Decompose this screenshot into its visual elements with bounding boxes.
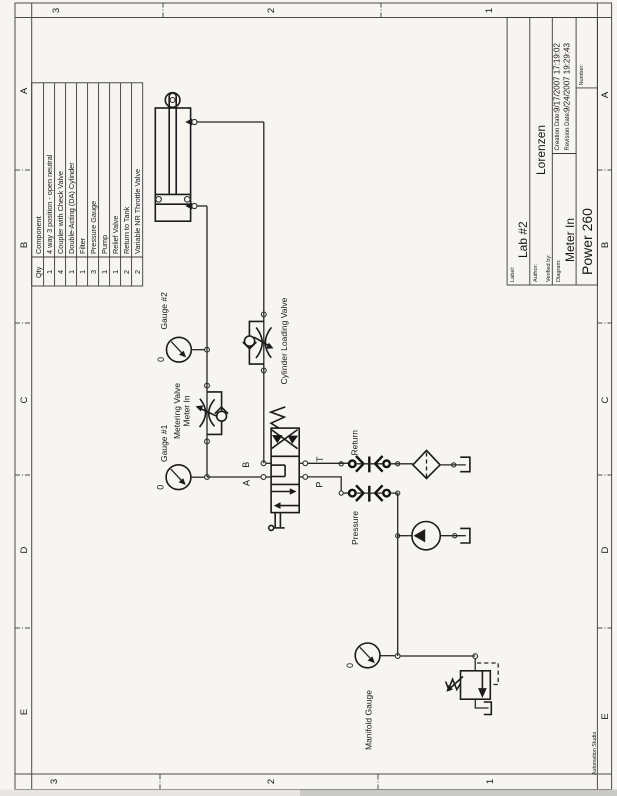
valve left box parallel arrows [272,488,299,509]
wire T stub [299,462,303,464]
svg-text:Number:: Number: [579,64,585,86]
loading adjust arrow [254,337,269,346]
wire T down [308,462,349,464]
node metering left [205,439,210,444]
wire P stub [299,476,303,478]
wire B port stub [266,462,271,464]
metering adjust arrow [200,408,217,416]
zone letters top band [19,87,30,715]
svg-text:B: B [600,242,611,248]
svg-text:Meter In: Meter In [182,395,192,426]
svg-text:0: 0 [156,485,166,490]
loading throttle arcs [256,328,262,359]
zone numbers left band [49,779,496,784]
svg-text:Pressure Gauge: Pressure Gauge [89,201,98,254]
svg-text:2: 2 [266,779,277,784]
svg-text:4 way 3 position - open neutra: 4 way 3 position - open neutral [45,154,54,254]
zone numbers right band [51,8,495,13]
node return top [339,462,343,466]
valve right box crossed arrows [271,430,298,449]
zone ticks bottom band [597,170,611,628]
wire manifold down to relief [400,655,475,657]
node manifold junction [395,654,400,659]
svg-text:2: 2 [133,270,142,274]
svg-text:B: B [241,462,251,468]
valve lever [274,513,285,528]
svg-text:Variable NR Throttle Valve: Variable NR Throttle Valve [133,169,142,254]
pressure gauge Gauge #2 [167,337,206,362]
svg-text:Double-Acting (DA) Cylinder: Double-Acting (DA) Cylinder [67,162,76,254]
border inner frame [31,3,33,790]
coupler pressure (with check valves) [349,485,390,501]
wire relief to tank [475,699,488,708]
svg-text:Coupler with Check Valve: Coupler with Check Valve [56,171,65,254]
svg-text:P: P [314,482,324,488]
node pump tee [396,534,400,538]
tank relief [484,702,492,715]
node metering right [205,383,210,388]
svg-text:D: D [19,546,30,553]
node return bottom [396,462,400,466]
svg-text:E: E [600,713,611,719]
pressure gauge Gauge #1 [166,465,205,490]
svg-text:1: 1 [484,8,495,13]
svg-text:A: A [19,87,30,94]
relief valve [446,663,499,699]
wire pressure rail to manifold [390,493,398,656]
node pressure bottom [396,491,400,495]
svg-text:A: A [242,480,252,486]
svg-text:Verified by:: Verified by: [546,254,552,282]
relief spring [446,679,461,689]
svg-text:9/17/2007 17:19:02: 9/17/2007 17:19:02 [553,42,562,112]
wire pump stub [398,535,412,537]
wire filter to tank [440,464,466,466]
svg-text:Metering Valve: Metering Valve [172,383,182,439]
svg-text:Creation Date:: Creation Date: [555,111,561,150]
wire return to filter [390,463,413,465]
svg-text:Lorenzen: Lorenzen [534,125,548,175]
svg-text:Return to Tank: Return to Tank [122,206,131,254]
cylinder DA body [155,93,190,221]
metering valve bypass loop [207,392,222,411]
node loading left [261,368,266,373]
node T port [303,461,308,466]
svg-text:1: 1 [78,270,87,274]
svg-text:C: C [600,396,611,403]
svg-text:Filter: Filter [78,237,87,254]
svg-text:Gauge #1: Gauge #1 [159,424,169,462]
svg-text:2: 2 [266,8,277,13]
cylinder rod-end port [185,119,192,126]
loading valve bypass loop [249,321,263,336]
filter [413,450,440,478]
svg-text:1: 1 [485,779,496,784]
valve body boxes [271,428,299,512]
scanner edge strip bottom [0,790,617,796]
wire P down and left [308,477,342,491]
svg-text:2: 2 [122,270,131,274]
svg-text:Gauge #2: Gauge #2 [159,292,169,330]
node pressure corner [339,491,343,495]
zone letters bottom band [600,91,611,720]
node P port [303,475,308,480]
node B port [261,461,266,466]
tank return (under filter) [460,457,470,472]
svg-text:3: 3 [89,270,98,274]
wire A drop to valve [207,476,261,478]
svg-text:Manifold Gauge: Manifold Gauge [364,690,374,750]
svg-text:Automation Studio: Automation Studio [592,732,598,775]
valve center box open-neutral links [271,465,285,476]
pressure gauge Manifold Gauge [355,643,380,668]
node gauge2 tee [205,347,210,352]
svg-text:1: 1 [100,270,109,274]
relief pilot dashed [477,663,498,685]
svg-text:A: A [600,91,611,98]
coupler return (with check valves) [349,456,390,472]
svg-text:T: T [315,456,325,462]
zone ticks right band [163,3,381,18]
node A port [261,475,266,480]
svg-text:Power 260: Power 260 [579,208,595,275]
svg-text:1: 1 [111,270,120,274]
wire rail A (cap end to port A) [206,206,208,477]
relief adjust arrow [449,677,463,690]
svg-text:Author:: Author: [533,264,539,282]
svg-text:Diagram:: Diagram: [556,259,562,282]
wire manifold stub [380,655,395,657]
svg-text:Return: Return [350,430,360,456]
valve spring [271,407,286,428]
cylinder cap-end port [185,203,192,210]
svg-text:Pump: Pump [100,235,109,254]
svg-text:Meter In: Meter In [563,218,577,262]
piston [155,203,190,205]
svg-text:Relief Valve: Relief Valve [111,216,120,254]
svg-text:Lab #2: Lab #2 [516,221,530,258]
svg-text:C: C [19,396,30,403]
rod clevis eye [165,93,180,108]
svg-text:Revision Date:: Revision Date: [565,111,571,150]
wire relief inlet [474,659,476,671]
svg-text:0: 0 [156,357,166,362]
svg-text:1: 1 [45,270,54,274]
wire pressure drop [343,492,349,494]
svg-text:E: E [19,709,30,715]
wire rod-end stub [197,121,264,123]
rod [168,97,170,195]
svg-text:Pressure: Pressure [350,511,360,545]
node gauge1 tee [205,475,210,480]
node loading right [261,312,266,317]
component table grid [32,83,143,286]
component table text [34,154,142,278]
zone ticks left band [160,774,378,790]
svg-text:0: 0 [345,663,355,668]
svg-text:9/24/2007 19:29:43: 9/24/2007 19:29:43 [563,42,572,112]
wire A port stub [266,476,271,478]
title block grid [507,18,597,286]
node relief inlet [473,654,478,659]
svg-text:4: 4 [56,270,65,274]
zone ticks top band [15,170,32,628]
loading check valve [245,336,255,346]
wire rail B (rod end to port B) [263,122,265,463]
svg-text:Cylinder Loading Valve: Cylinder Loading Valve [279,297,289,384]
wire cap-end stub [197,205,207,207]
svg-text:Component: Component [34,216,43,254]
metering check valve [217,411,227,421]
svg-text:D: D [600,546,611,553]
svg-text:1: 1 [67,270,76,274]
svg-text:B: B [19,242,30,248]
svg-text:3: 3 [49,779,60,784]
svg-text:Label:: Label: [510,266,516,282]
svg-text:Qty: Qty [34,266,43,278]
svg-text:3: 3 [51,8,62,13]
node filter bottom [452,463,456,467]
metering throttle arcs [200,399,206,427]
tank pump [460,528,470,543]
wire pump to tank [440,535,466,537]
piston seal circles [156,197,162,203]
pump [412,522,440,550]
node pump tank [453,534,457,538]
